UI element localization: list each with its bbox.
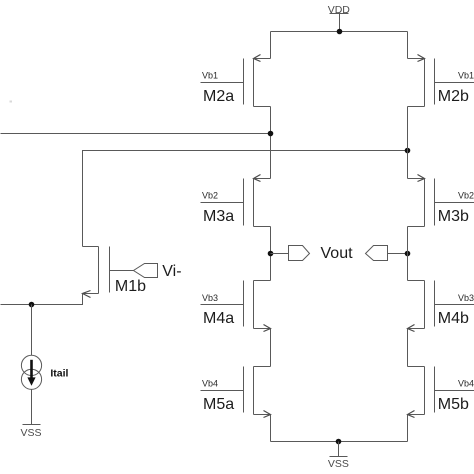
wire top rail bbox=[271, 31, 408, 33]
svg-text:Vb2: Vb2 bbox=[458, 191, 474, 201]
wire port to right branch bbox=[388, 253, 408, 255]
svg-text:M4a: M4a bbox=[203, 310, 234, 327]
transistor M1b bbox=[83, 247, 134, 298]
wire left column M5a to bottom rail bbox=[270, 415, 272, 442]
wire right column M3b drain to M4b source bbox=[407, 227, 409, 281]
wire M1b source to tail node bbox=[1, 294, 83, 305]
svg-text:Vb1: Vb1 bbox=[458, 71, 474, 81]
port left-pointing at right branch bbox=[366, 246, 388, 261]
svg-text:Itail: Itail bbox=[50, 367, 68, 379]
wire tail node down to Itail bbox=[31, 305, 33, 356]
port Vout (right-pointing) bbox=[289, 246, 310, 261]
VDD supply symbol bbox=[328, 4, 351, 32]
port Vi- (left-pointing) bbox=[134, 264, 158, 278]
wire left column rail to M2a source bbox=[270, 32, 272, 59]
svg-text:VSS: VSS bbox=[20, 427, 41, 439]
node dot Vout right branch bbox=[405, 251, 411, 257]
svg-text:M1b: M1b bbox=[115, 278, 146, 295]
node dot M2b drain bbox=[405, 148, 411, 154]
transistor M2b bbox=[408, 55, 474, 107]
transistor M3b bbox=[408, 175, 474, 227]
node dot Vout left branch bbox=[268, 251, 274, 257]
wire left column M4a drain to M5a bbox=[270, 329, 272, 367]
node dot M2a drain bbox=[268, 131, 274, 137]
wire crossing line M1b drain to M2b drain bbox=[83, 151, 408, 247]
faint artifact speck bbox=[10, 101, 13, 103]
svg-text:M2a: M2a bbox=[203, 88, 234, 105]
VSS supply symbol (bottom center) bbox=[328, 442, 349, 470]
node VDD junction dot bbox=[337, 29, 343, 35]
current source Itail bbox=[21, 355, 41, 389]
svg-text:M3b: M3b bbox=[438, 208, 469, 225]
transistor M5b bbox=[408, 367, 474, 418]
svg-text:Vb1: Vb1 bbox=[202, 71, 218, 81]
wire right column M2b drain to M3b source bbox=[407, 107, 409, 179]
svg-text:Vout: Vout bbox=[321, 245, 354, 262]
node dot bottom rail bbox=[336, 439, 342, 445]
svg-text:Vb4: Vb4 bbox=[202, 379, 218, 389]
transistor M5a bbox=[201, 367, 271, 418]
node dot tail bbox=[29, 302, 35, 308]
transistor M4a bbox=[201, 281, 271, 332]
wire bottom rail bbox=[271, 441, 408, 443]
svg-text:M2b: M2b bbox=[438, 88, 469, 105]
transistor M3a bbox=[201, 175, 271, 227]
svg-text:M4b: M4b bbox=[438, 310, 469, 327]
svg-text:M3a: M3a bbox=[203, 208, 234, 225]
wire right column rail to M2b source bbox=[407, 32, 409, 59]
svg-text:Vb3: Vb3 bbox=[458, 293, 474, 303]
svg-text:VSS: VSS bbox=[328, 458, 349, 470]
svg-text:Vb4: Vb4 bbox=[458, 379, 474, 389]
wire right column M5b to bottom rail bbox=[407, 415, 409, 442]
transistor M2a bbox=[201, 55, 271, 107]
wire to Vout port bbox=[271, 253, 289, 255]
wire node line to left edge bbox=[1, 133, 271, 135]
svg-text:Vb3: Vb3 bbox=[202, 293, 218, 303]
svg-text:Vb2: Vb2 bbox=[202, 191, 218, 201]
wire left column M2a drain to M3a source bbox=[270, 107, 272, 179]
svg-text:M5a: M5a bbox=[203, 396, 234, 413]
VSS supply symbol (bottom left) bbox=[20, 425, 41, 440]
wire Itail to VSS bbox=[31, 390, 33, 425]
transistor M4b bbox=[408, 281, 474, 332]
wire left column M3a drain to M4a source bbox=[270, 227, 272, 281]
svg-text:M5b: M5b bbox=[438, 396, 469, 413]
svg-text:Vi-: Vi- bbox=[162, 263, 181, 280]
wire right column M4b drain to M5b bbox=[407, 329, 409, 367]
